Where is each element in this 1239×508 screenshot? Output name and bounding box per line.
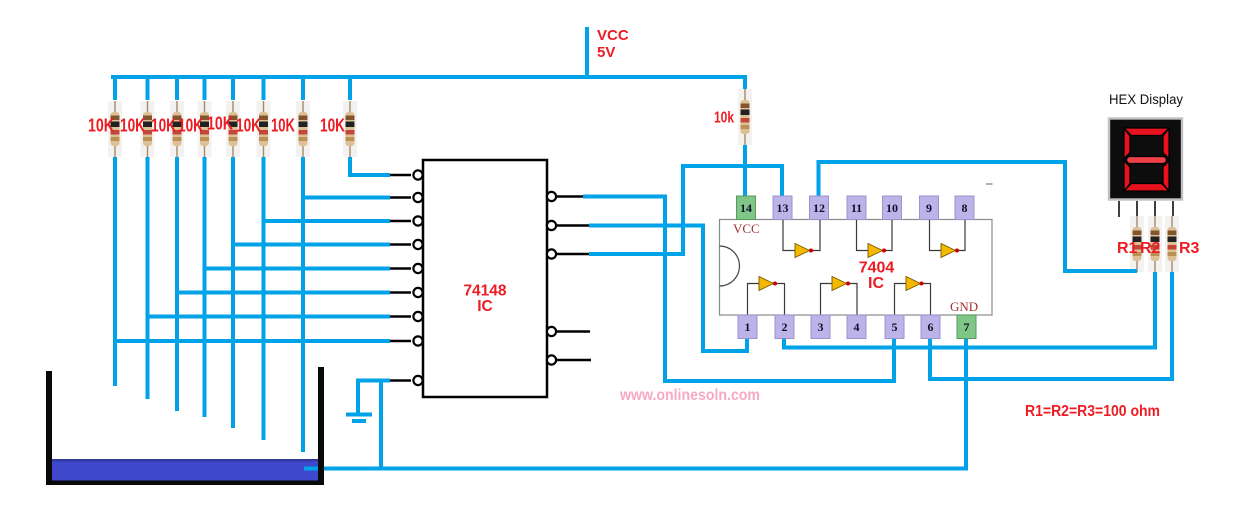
- svg-text:R3: R3: [1179, 240, 1200, 257]
- svg-text:1: 1: [745, 320, 751, 334]
- svg-text:4: 4: [854, 320, 860, 334]
- svg-text:7: 7: [964, 320, 970, 334]
- svg-text:7404: 7404: [859, 260, 895, 277]
- svg-text:10K: 10K: [178, 116, 203, 136]
- svg-text:www.onlinesoln.com: www.onlinesoln.com: [619, 387, 760, 404]
- svg-text:8: 8: [962, 201, 968, 215]
- svg-text:5: 5: [892, 320, 898, 334]
- svg-text:10K: 10K: [207, 114, 233, 134]
- svg-text:10K: 10K: [88, 116, 114, 136]
- svg-text:14: 14: [740, 201, 752, 215]
- svg-text:HEX Display: HEX Display: [1109, 92, 1183, 107]
- svg-text:R1=R2=R3=100 ohm: R1=R2=R3=100 ohm: [1025, 403, 1160, 420]
- svg-text:10K: 10K: [271, 116, 295, 136]
- svg-text:IC: IC: [868, 275, 884, 292]
- svg-text:R2: R2: [1140, 240, 1161, 257]
- svg-text:10K: 10K: [120, 116, 145, 136]
- svg-text:GND: GND: [950, 299, 978, 314]
- svg-text:VCC: VCC: [597, 27, 629, 44]
- svg-text:12: 12: [813, 201, 825, 215]
- svg-text:3: 3: [818, 320, 824, 334]
- svg-text:11: 11: [851, 201, 862, 215]
- svg-text:9: 9: [926, 201, 932, 215]
- svg-text:2: 2: [782, 320, 788, 334]
- svg-text:10K: 10K: [320, 116, 345, 136]
- svg-text:10k: 10k: [714, 110, 734, 127]
- svg-text:10: 10: [886, 201, 898, 215]
- svg-text:74148: 74148: [463, 283, 506, 300]
- svg-text:10K: 10K: [236, 116, 261, 136]
- svg-text:5V: 5V: [597, 44, 615, 61]
- svg-text:13: 13: [777, 201, 789, 215]
- svg-text:R1: R1: [1117, 240, 1138, 257]
- svg-text:VCC: VCC: [733, 221, 760, 236]
- svg-text:10K: 10K: [151, 116, 176, 136]
- svg-text:IC: IC: [477, 298, 493, 315]
- svg-text:6: 6: [928, 320, 934, 334]
